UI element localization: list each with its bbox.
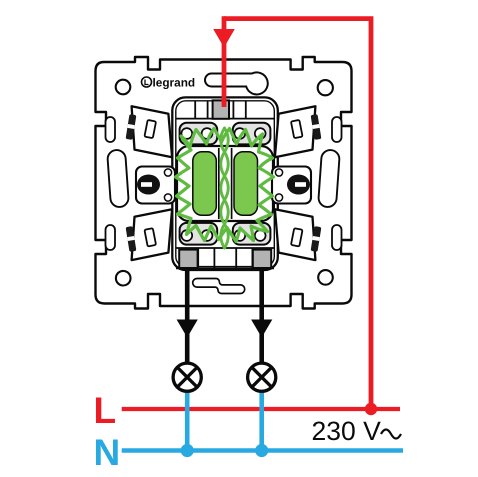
junction dot N lamp1 bbox=[181, 444, 194, 457]
claw top-left bbox=[132, 106, 173, 157]
rocker frame bbox=[177, 146, 273, 221]
claw top-right bbox=[275, 106, 316, 157]
top fixing slot bbox=[205, 72, 268, 94]
lamp 1 bbox=[173, 363, 201, 391]
claw screw bar right-bottom bbox=[311, 226, 322, 252]
corner screw hole top-right bbox=[318, 80, 333, 95]
rocker divider bbox=[219, 148, 232, 219]
switch support plate bbox=[96, 57, 352, 309]
claw bottom-right bbox=[275, 209, 316, 260]
right claw spring bbox=[318, 149, 340, 207]
side screw assembly right bbox=[272, 167, 311, 204]
upper contact window left bbox=[180, 123, 271, 145]
top terminal row cells bbox=[176, 101, 274, 119]
lamp 2 bbox=[248, 363, 276, 391]
upper contact screws bbox=[181, 128, 265, 139]
bottom terminal left (lamp 1 out) bbox=[179, 250, 197, 268]
claw screw bar left-bottom bbox=[126, 226, 137, 252]
bottom terminal row cells bbox=[176, 248, 274, 268]
svg-text:230 V: 230 V bbox=[312, 416, 382, 446]
junction dot on L bbox=[365, 403, 377, 415]
AC sine symbol bbox=[381, 430, 401, 439]
claw screw bar right-top bbox=[311, 114, 322, 140]
bottom terminal right (lamp 2 out) bbox=[253, 250, 271, 268]
svg-text:N: N bbox=[94, 432, 121, 473]
left plate slots bbox=[106, 117, 116, 250]
wire: switched lamp 2 (black) bbox=[259, 268, 264, 364]
wire: lamp 1 to N (blue) bbox=[185, 384, 190, 453]
claw bottom-left bbox=[132, 209, 173, 260]
wire: lamp 2 to N (blue) bbox=[259, 384, 264, 453]
side screw assembly left bbox=[136, 167, 175, 204]
right plate slots bbox=[332, 117, 342, 250]
corner screw hole bottom-right bbox=[318, 270, 333, 285]
corner screw hole top-left bbox=[116, 80, 131, 95]
bottom fixing slot bbox=[193, 279, 245, 294]
svg-text:L: L bbox=[94, 390, 117, 431]
arrow lamp 2 wire bbox=[251, 320, 272, 338]
wire: phase feed (red) bbox=[224, 19, 371, 409]
arrow lamp 1 wire bbox=[177, 320, 198, 338]
wire: N line (blue) bbox=[122, 448, 403, 453]
highlight braid center bbox=[221, 128, 229, 248]
rocker button right (green) bbox=[234, 152, 258, 216]
mechanism housing bbox=[172, 97, 277, 270]
arrow on red feed wire bbox=[213, 29, 235, 48]
wire: L line (red) bbox=[122, 407, 400, 411]
corner screw hole bottom-left bbox=[116, 271, 131, 286]
left claw spring bbox=[107, 149, 129, 207]
svg-text:legrand: legrand bbox=[153, 76, 196, 90]
wire: switched lamp 1 (black) bbox=[185, 268, 190, 364]
junction dot N lamp2 bbox=[255, 444, 268, 457]
legrand logo bbox=[142, 76, 196, 90]
highlight starburst (green) bbox=[176, 129, 274, 242]
top terminal (supply in) bbox=[213, 100, 229, 118]
claw screw bar left-top bbox=[126, 114, 137, 140]
rocker button left (green) bbox=[193, 152, 217, 216]
lower contact screws bbox=[181, 230, 265, 241]
lower contact window left bbox=[180, 223, 271, 245]
